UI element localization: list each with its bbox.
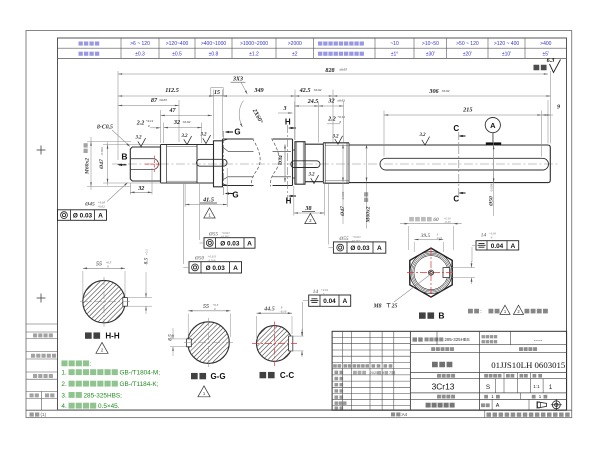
tri mark 2: [305, 213, 316, 223]
section cut H-H: [287, 125, 289, 201]
groove F (3 wide): [293, 149, 296, 151]
label dia47 left: [99, 159, 105, 170]
svg-text:3.: 3.: [61, 392, 67, 399]
hex keyway dim 14: [451, 267, 475, 269]
svg-text:GB-/T1184-K;: GB-/T1184-K;: [120, 381, 159, 388]
svg-text:3: 3: [283, 106, 287, 112]
svg-text:>400~1000: >400~1000: [201, 41, 227, 47]
svg-text:Ø50: Ø50: [489, 196, 495, 207]
dim 828: [118, 73, 548, 75]
view B centre tapped hole M8: [428, 270, 433, 275]
dim chain 112.5 / 15 / 349 / 42.5 / 306: [118, 95, 214, 97]
svg-text:G-G: G-G: [210, 372, 225, 381]
svg-text:44.5: 44.5: [263, 307, 275, 313]
svg-text:>50 ~ 120: >50 ~ 120: [456, 41, 479, 47]
left margin record boxes: [26, 323, 58, 325]
svg-text:Ø34: Ø34: [278, 155, 284, 166]
svg-text:3Cr13: 3Cr13: [432, 382, 455, 392]
through slot 1 (between S2 and disc): [197, 159, 228, 166]
outer border frame: [26, 31, 572, 418]
FCF sym 0.04 A (hex): [476, 241, 519, 250]
svg-text:>1000~2000: >1000~2000: [240, 41, 268, 47]
through slot 2 (across flange): [291, 161, 320, 168]
view B red centrelines: [407, 272, 455, 274]
datum A balloon: [485, 118, 500, 133]
svg-text:38: 38: [304, 205, 311, 212]
svg-text:A: A: [247, 240, 252, 247]
svg-text:+0.002: +0.002: [352, 239, 361, 243]
shaft centerline: [112, 163, 560, 165]
svg-text:±2: ±2: [292, 51, 298, 57]
shaft section S3 (dia47): [196, 145, 198, 184]
svg-text:2.: 2.: [61, 381, 67, 388]
designer name and date: [353, 371, 357, 375]
dim 32 (bottom slot): [130, 191, 152, 193]
dia dim M60 left: [90, 137, 92, 190]
svg-text:+0.02: +0.02: [97, 205, 105, 209]
svg-text:112.5: 112.5: [165, 87, 179, 94]
H-H dim 8.5: [128, 297, 153, 299]
tolerance table: [58, 37, 567, 39]
view B bore keyway notch: [443, 268, 450, 278]
hex dim 60: [408, 226, 410, 250]
svg-text:>400: >400: [540, 41, 551, 47]
svg-text:(1): (1): [41, 412, 47, 417]
svg-text:0.04: 0.04: [323, 298, 336, 305]
svg-text:H: H: [285, 118, 291, 127]
table header CJK: angle size: [318, 41, 322, 45]
fold mark top: [37, 149, 46, 151]
dim 9: [542, 114, 553, 116]
material name header: [410, 378, 566, 380]
svg-text:±1°: ±1°: [391, 51, 399, 57]
C-C keyway flat: [289, 336, 293, 351]
svg-text:Ø 0.03: Ø 0.03: [350, 245, 370, 252]
svg-text:+0.14: +0.14: [146, 119, 154, 123]
svg-text:H-H: H-H: [105, 332, 119, 341]
svg-text:C: C: [453, 195, 459, 204]
svg-text:3.2: 3.2: [200, 133, 208, 138]
svg-text:285-325HBS;: 285-325HBS;: [84, 392, 123, 399]
svg-text:>2000: >2000: [288, 41, 302, 47]
title block: [332, 331, 566, 410]
break (wavy) lines in hex section: [251, 139, 260, 187]
section SH (dia47): [305, 143, 323, 145]
svg-text:15: 15: [214, 90, 220, 96]
svg-text:±0.05: ±0.05: [339, 68, 347, 72]
svg-text:Ø47: Ø47: [99, 159, 105, 170]
svg-text:0.04: 0.04: [491, 243, 504, 250]
svg-text:A: A: [377, 245, 382, 252]
bottom margin line: [26, 409, 572, 411]
svg-text:828: 828: [325, 67, 334, 74]
svg-text:01JJS10LH 0603015: 01JJS10LH 0603015: [491, 360, 566, 370]
dia dim 34 at hex: [284, 144, 286, 182]
keyway slot on SJ: [380, 158, 549, 170]
internal slot in S1 (hidden) with red end arc: [131, 158, 154, 160]
svg-text:Ø 0.03: Ø 0.03: [206, 265, 226, 272]
svg-text:8.5: 8.5: [168, 334, 174, 341]
svg-text:Ø45: Ø45: [84, 202, 95, 208]
svg-text:A: A: [490, 121, 496, 130]
svg-text:3X3: 3X3: [232, 77, 243, 83]
extension lines: [117, 71, 119, 160]
label dia50 right: [489, 196, 495, 207]
svg-text:-0.009: -0.009: [341, 191, 345, 200]
dim 3 (groove): [278, 112, 293, 114]
material 3Cr13: [410, 392, 566, 394]
product name: [426, 403, 431, 408]
table header CJK: basic size / bend tolerance: [79, 41, 83, 45]
FCF dia55 conc 0.03 A (right): [333, 242, 385, 253]
dia dim 47 left: [107, 142, 109, 186]
svg-text:-0.10: -0.10: [436, 236, 443, 240]
dim 38: [294, 212, 325, 214]
C-C dim 44.5: [256, 316, 258, 338]
svg-text:-----: -----: [534, 338, 543, 344]
svg-text:14: 14: [481, 232, 487, 238]
svg-text:±0.02: ±0.02: [442, 89, 450, 93]
svg-text:±10': ±10': [502, 51, 511, 57]
section cut C-C: [458, 132, 460, 197]
sheet counts: [520, 393, 522, 400]
revision header labels: [333, 364, 337, 367]
svg-text:>10~50: >10~50: [422, 41, 439, 47]
svg-text:G: G: [234, 128, 240, 137]
svg-text:3.2: 3.2: [332, 135, 340, 140]
fold mark bottom: [37, 297, 46, 299]
svg-text:±0.3: ±0.3: [135, 51, 145, 57]
svg-text:S: S: [486, 384, 490, 391]
svg-text:32: 32: [327, 98, 334, 105]
product name header: [410, 398, 479, 400]
dia dim M60 right: [366, 144, 368, 182]
svg-text:G: G: [232, 191, 238, 200]
svg-text:A: A: [496, 403, 500, 409]
svg-text:14: 14: [313, 289, 319, 295]
svg-text:+0.002: +0.002: [221, 235, 230, 239]
label M60x2 LH left: [85, 158, 91, 175]
dia dim 47 right: [342, 144, 344, 182]
svg-text:55: 55: [203, 304, 209, 310]
svg-text:±0.8: ±0.8: [209, 51, 219, 57]
svg-text:39.5: 39.5: [420, 233, 431, 239]
svg-text:41.5: 41.5: [202, 197, 214, 204]
FCF dia55 conc 0.03 A (left): [204, 238, 255, 249]
svg-text:1.: 1.: [61, 370, 67, 377]
flange G (dia55): [295, 142, 305, 185]
G-G keyway notch: [186, 339, 191, 347]
left margin labels: [33, 333, 37, 337]
svg-text:8.5: 8.5: [144, 257, 150, 264]
svg-text:6.3: 6.3: [547, 57, 555, 64]
svg-text:1:1: 1:1: [533, 384, 540, 389]
svg-text:285-325HBS: 285-325HBS: [445, 337, 470, 342]
remark note: [468, 309, 473, 314]
svg-text:A: A: [233, 265, 238, 272]
label dia34: [278, 155, 284, 166]
hex facet lines: [228, 150, 254, 152]
svg-text:M60x2: M60x2: [85, 158, 91, 175]
stage mark headers: [478, 373, 480, 411]
svg-text:306: 306: [428, 88, 439, 95]
surface note top right (qi yu 6.3): [534, 65, 540, 71]
svg-text:±0.05: ±0.05: [159, 98, 167, 102]
FCF leaders: [200, 242, 205, 244]
svg-text:2.2: 2.2: [327, 117, 336, 123]
view B thread circles: [410, 252, 452, 294]
svg-text::A4: :A4: [401, 412, 408, 417]
svg-text:Ø 0.03: Ø 0.03: [220, 240, 240, 247]
H-H dim 55: [82, 271, 84, 297]
svg-text:55: 55: [96, 262, 102, 268]
angle note 2X60: [239, 101, 243, 127]
stage values: [495, 379, 497, 393]
dim 47: [161, 114, 213, 116]
datum target bar: [486, 142, 501, 144]
svg-text:C: C: [453, 124, 459, 133]
hex dim 39.5: [413, 242, 415, 252]
first angle projection symbols: [537, 402, 547, 408]
sheet size A4: [391, 412, 395, 416]
svg-text:±0.02: ±0.02: [314, 88, 322, 92]
svg-text:0.5×45.: 0.5×45.: [98, 403, 120, 410]
G-G dim 8.5: [170, 338, 186, 340]
dim 215: [384, 114, 542, 116]
svg-text:>6 ~ 120: >6 ~ 120: [130, 41, 150, 47]
label dia47 right: [340, 206, 346, 217]
svg-text:±0.02: ±0.02: [337, 98, 345, 102]
svg-text:A: A: [343, 298, 348, 305]
svg-text:+0.14: +0.14: [337, 115, 345, 119]
svg-text:C-C: C-C: [280, 371, 294, 380]
svg-text:>120~400: >120~400: [166, 41, 189, 47]
hex section side view: [223, 138, 254, 140]
long cylinder SJ (dia50): [349, 145, 550, 183]
dim 24.5 / 32 right: [295, 105, 319, 107]
red centre marks of slot: [153, 156, 155, 173]
svg-text:8-C0,5: 8-C0,5: [97, 125, 113, 131]
svg-text:B: B: [438, 311, 444, 321]
svg-text:M8: M8: [372, 304, 381, 310]
svg-text:~10: ~10: [390, 41, 399, 47]
svg-text::: :: [480, 309, 481, 315]
svg-text:Ø47: Ø47: [340, 206, 346, 217]
part name header / drawing no header: [431, 347, 435, 351]
svg-text:-0.008: -0.008: [490, 183, 494, 192]
section cut G-G: [223, 131, 225, 197]
svg-text:-0.019: -0.019: [208, 258, 216, 262]
dim 87: [118, 105, 179, 107]
coating cell: [413, 337, 418, 341]
FCF dia45 conc 0.03 A: [58, 210, 107, 221]
company name strip: [484, 410, 486, 417]
version row: [479, 398, 566, 400]
label section H-H: [85, 332, 92, 338]
svg-text:47: 47: [169, 108, 177, 114]
dim 41.5: [185, 204, 227, 206]
label M60x2 LH right: [366, 206, 372, 223]
svg-text:A: A: [98, 213, 103, 220]
part name: [432, 362, 438, 368]
svg-text:±1.2: ±1.2: [249, 51, 259, 57]
svg-text:2.2: 2.2: [136, 121, 145, 127]
bend/view direction cell: [482, 335, 485, 338]
section SI (M60x2 LH thread right): [323, 142, 349, 144]
svg-text:349: 349: [253, 87, 263, 94]
svg-text:42.5: 42.5: [299, 87, 311, 94]
svg-text:3.2: 3.2: [419, 133, 427, 138]
svg-text:±30': ±30': [426, 51, 435, 57]
FCF sym 0.04 A (C-C): [309, 295, 351, 306]
svg-text:H: H: [286, 197, 292, 206]
label section C-C: [260, 372, 267, 378]
svg-text:>120 ~ 400: >120 ~ 400: [494, 41, 520, 47]
svg-text:87: 87: [151, 97, 158, 104]
label view B: [419, 312, 426, 318]
svg-text:M60x2: M60x2: [366, 206, 372, 223]
svg-text:-0.009: -0.009: [100, 147, 104, 156]
svg-text:±0.5: ±0.5: [172, 51, 182, 57]
svg-text:4.: 4.: [61, 403, 67, 410]
svg-text:-0.10: -0.10: [280, 309, 287, 313]
tri mark 1 under G-G: [198, 386, 210, 397]
svg-text:3.2: 3.2: [181, 134, 189, 139]
disc D (dia55 collar, 15 wide): [214, 141, 223, 187]
technical notes (green): [61, 360, 67, 366]
svg-text:Ø 0.03: Ø 0.03: [73, 213, 93, 220]
svg-text:Ø50: Ø50: [194, 255, 205, 261]
svg-text:Ø55: Ø55: [338, 236, 349, 242]
svg-text:24.5: 24.5: [307, 99, 319, 105]
format cell: [30, 412, 34, 416]
C-C keyway width ext: [290, 335, 304, 337]
svg-text:3.2: 3.2: [308, 173, 316, 178]
svg-text:A: A: [511, 243, 516, 250]
tri mark 2 under H-H: [96, 342, 108, 353]
dia dim 50 right: [493, 145, 495, 183]
svg-text:215: 215: [462, 107, 472, 114]
svg-text:±20': ±20': [463, 51, 472, 57]
svg-text:+0.2: +0.2: [145, 249, 149, 255]
svg-text:9: 9: [557, 105, 560, 111]
svg-text:32: 32: [173, 119, 180, 126]
svg-text:25: 25: [391, 304, 398, 310]
svg-text:-0.25: -0.25: [444, 220, 451, 224]
svg-text:Ø55: Ø55: [208, 232, 219, 238]
tri mark 1: [204, 208, 215, 218]
svg-text:±0.02: ±0.02: [183, 120, 191, 124]
label section G-G: [191, 373, 198, 379]
svg-text:B: B: [121, 152, 127, 162]
svg-text:GB-/T1804-M;: GB-/T1804-M;: [120, 370, 161, 377]
FCF dia50 conc 0.03 A: [189, 262, 242, 273]
svg-text:60: 60: [433, 217, 439, 223]
signature labels: design/check/review/process/quality/standard/approve: [335, 371, 339, 374]
svg-text:32: 32: [137, 185, 144, 192]
H-H keyway notch: [123, 298, 128, 307]
inner drawing frame: [58, 38, 567, 410]
shaft section S1 (left cylinder, dia45): [130, 147, 160, 181]
G-G dim 55: [187, 314, 189, 338]
svg-text:3.2: 3.2: [135, 136, 143, 141]
label M8 depth 25: [394, 276, 429, 303]
dim 32 (thread length): [164, 127, 202, 129]
shaft section S2 (M60x2 LH thread): [161, 144, 198, 146]
view B hexagon: [410, 248, 452, 297]
